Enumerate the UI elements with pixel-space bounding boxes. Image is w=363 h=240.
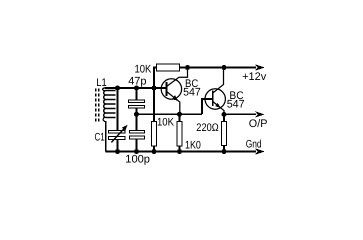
svg-text:547: 547 (183, 86, 201, 98)
capacitor 47p (128, 75, 146, 114)
svg-text:47p: 47p (128, 75, 146, 87)
svg-text:10K: 10K (135, 64, 152, 76)
node Q1 base (152, 86, 157, 91)
svg-text:C1: C1 (95, 132, 105, 144)
svg-text:10K: 10K (157, 117, 175, 129)
inductor L1 (96, 77, 116, 152)
svg-text:Gnd: Gnd (246, 138, 262, 150)
L1 core (dashed) (95, 89, 97, 123)
resistor 10K (vertical) (152, 117, 175, 152)
svg-text:+12v: +12v (242, 71, 267, 83)
node Q1 emitter / 1K0 (177, 112, 182, 117)
resistor 1K0 (177, 114, 201, 151)
node Q2 emitter / 220ohm (222, 112, 227, 117)
node 47p top (134, 86, 139, 91)
terminal O/P (249, 111, 268, 130)
svg-text:100p: 100p (125, 154, 150, 166)
node 10K bottom (152, 149, 157, 154)
resistor 220ohm (196, 114, 226, 151)
wire O/P lead (224, 113, 256, 115)
node top rail / Q1 collector (185, 65, 190, 70)
node top rail / Q2 collector (222, 65, 227, 70)
node 220ohm bottom (222, 149, 227, 154)
svg-text:547: 547 (227, 99, 245, 111)
wire +12v rail (180, 67, 257, 69)
wire tank top rail (105, 87, 167, 89)
terminal Gnd (246, 138, 265, 154)
node 100p bottom (134, 149, 139, 154)
wire Q2 base riser (202, 99, 213, 114)
transistor Q2 BC547 (205, 68, 245, 115)
svg-text:220Ω: 220Ω (196, 122, 218, 134)
wire L1 bottom lead (105, 121, 107, 152)
node cap divider tap (134, 112, 139, 117)
capacitor 100p (125, 114, 150, 166)
wire mid rail (137, 113, 203, 115)
wire 10K vertical branch (153, 88, 155, 122)
terminal +12v (242, 64, 267, 83)
capacitor C1 (variable) (95, 88, 128, 152)
resistor 10K (top) (135, 64, 180, 76)
svg-text:L1: L1 (96, 77, 106, 89)
transistor Q1 BC547 (161, 68, 201, 115)
node C1 top (115, 86, 120, 91)
svg-text:O/P: O/P (249, 118, 268, 130)
node 1K0 bottom (177, 149, 182, 154)
wire ground rail (106, 151, 257, 153)
svg-text:1K0: 1K0 (185, 140, 201, 152)
wire 10K top left lead (154, 68, 157, 89)
node C1 bottom (115, 149, 120, 154)
